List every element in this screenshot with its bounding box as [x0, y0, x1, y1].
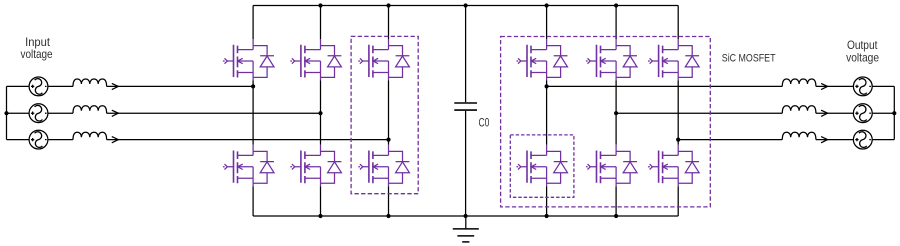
node: output phase A / right leg 1 midpoint	[545, 84, 549, 88]
ground	[453, 216, 479, 242]
transistor Q8 (right bridge leg 1 low side MOSFET)	[516, 145, 567, 187]
wire: left bridge leg 2 vertical	[320, 6, 322, 217]
svg-text:Input: Input	[25, 36, 51, 49]
wire: right bridge leg 3 vertical	[677, 6, 679, 217]
wire: top DC bus	[253, 5, 678, 7]
wire: output phase C line	[678, 139, 894, 141]
wire: left bridge leg 1 vertical	[252, 6, 254, 217]
inductor L6 (output phase C)	[782, 132, 827, 143]
transistor Q6 (left bridge leg 3 low side MOSFET)	[358, 145, 409, 187]
wire: input phase A line	[7, 85, 254, 87]
node: bottom bus / left leg 2 junction	[318, 214, 322, 218]
capacitor C0	[454, 6, 477, 217]
node: bottom bus / right leg 1 junction	[545, 214, 549, 218]
inductor L2 (input phase B)	[73, 106, 118, 117]
inductor L1 (input phase A)	[73, 79, 118, 90]
svg-text:Output: Output	[847, 39, 878, 52]
transistor Q2 (left bridge leg 1 low side MOSFET)	[223, 145, 274, 187]
node: output phase C / right leg 3 midpoint	[676, 138, 680, 142]
wire: input neutral vertical	[6, 86, 8, 139]
node: input phase B / left leg 2 midpoint	[318, 111, 322, 115]
transistor Q3 (left bridge leg 2 high side MOSFET)	[290, 39, 341, 81]
transistor Q10 (right bridge leg 2 low side MOSFET)	[586, 145, 637, 187]
transistor Q7 (right bridge leg 1 high side MOSFET)	[516, 39, 567, 81]
node: top bus / left leg 3 junction	[386, 3, 390, 7]
svg-text:voltage: voltage	[846, 52, 879, 65]
inductor L3 (input phase C)	[73, 132, 118, 143]
dashed highlight box around right bridge leg 1 low side MOSFET	[510, 135, 574, 197]
wire: right bridge leg 2 vertical	[615, 6, 617, 217]
node: top bus / right leg 1 junction	[545, 3, 549, 7]
svg-text:SiC MOSFET: SiC MOSFET	[722, 53, 776, 65]
node: input phase C / left leg 3 midpoint	[386, 138, 390, 142]
dashed highlight box around right bridge	[501, 37, 711, 207]
node: input neutral junction	[4, 111, 8, 115]
AC source V4 (output phase A)	[853, 77, 872, 96]
transistor Q4 (left bridge leg 2 low side MOSFET)	[290, 145, 341, 187]
wire: input phase B line	[7, 112, 321, 114]
AC source V2 (input phase B)	[29, 104, 48, 123]
AC source V3 (input phase C)	[29, 130, 48, 149]
wire: output phase B line	[616, 112, 894, 114]
transistor Q1 (left bridge leg 1 high side MOSFET)	[223, 39, 274, 81]
node: bottom bus / left leg 3 junction	[386, 214, 390, 218]
transistor Q12 (right bridge leg 3 low side MOSFET)	[648, 145, 699, 187]
transistor Q11 (right bridge leg 3 high side MOSFET)	[648, 39, 699, 81]
node: top bus / right leg 2 junction	[614, 3, 618, 7]
wire: output neutral vertical	[893, 86, 895, 139]
dashed highlight box around left bridge leg 3	[351, 36, 418, 193]
node: top bus / left leg 2 junction	[318, 3, 322, 7]
node: bottom bus / right leg 2 junction	[614, 214, 618, 218]
transistor Q9 (right bridge leg 2 high side MOSFET)	[586, 39, 637, 81]
AC source V1 (input phase A)	[29, 77, 48, 96]
inductor L4 (output phase A)	[782, 79, 827, 90]
node: bottom bus / capacitor-ground junction	[464, 214, 468, 218]
wire: output phase A line	[547, 85, 895, 87]
inductor L5 (output phase B)	[782, 106, 827, 117]
wire: right bridge leg 1 vertical	[546, 6, 548, 217]
transistor Q5 (left bridge leg 3 high side MOSFET)	[358, 39, 409, 81]
wire: left bridge leg 3 vertical	[388, 6, 390, 217]
AC source V5 (output phase B)	[853, 104, 872, 123]
node: input phase A / left leg 1 midpoint	[251, 84, 255, 88]
svg-text:C0: C0	[479, 117, 490, 130]
wire: input phase C line	[7, 139, 389, 141]
node: output phase B / right leg 2 midpoint	[614, 111, 618, 115]
node: top bus / capacitor junction	[464, 3, 468, 7]
svg-text:voltage: voltage	[21, 48, 53, 61]
AC source V6 (output phase C)	[853, 130, 872, 149]
node: output neutral junction	[892, 111, 896, 115]
wire: bottom DC bus	[253, 215, 678, 217]
